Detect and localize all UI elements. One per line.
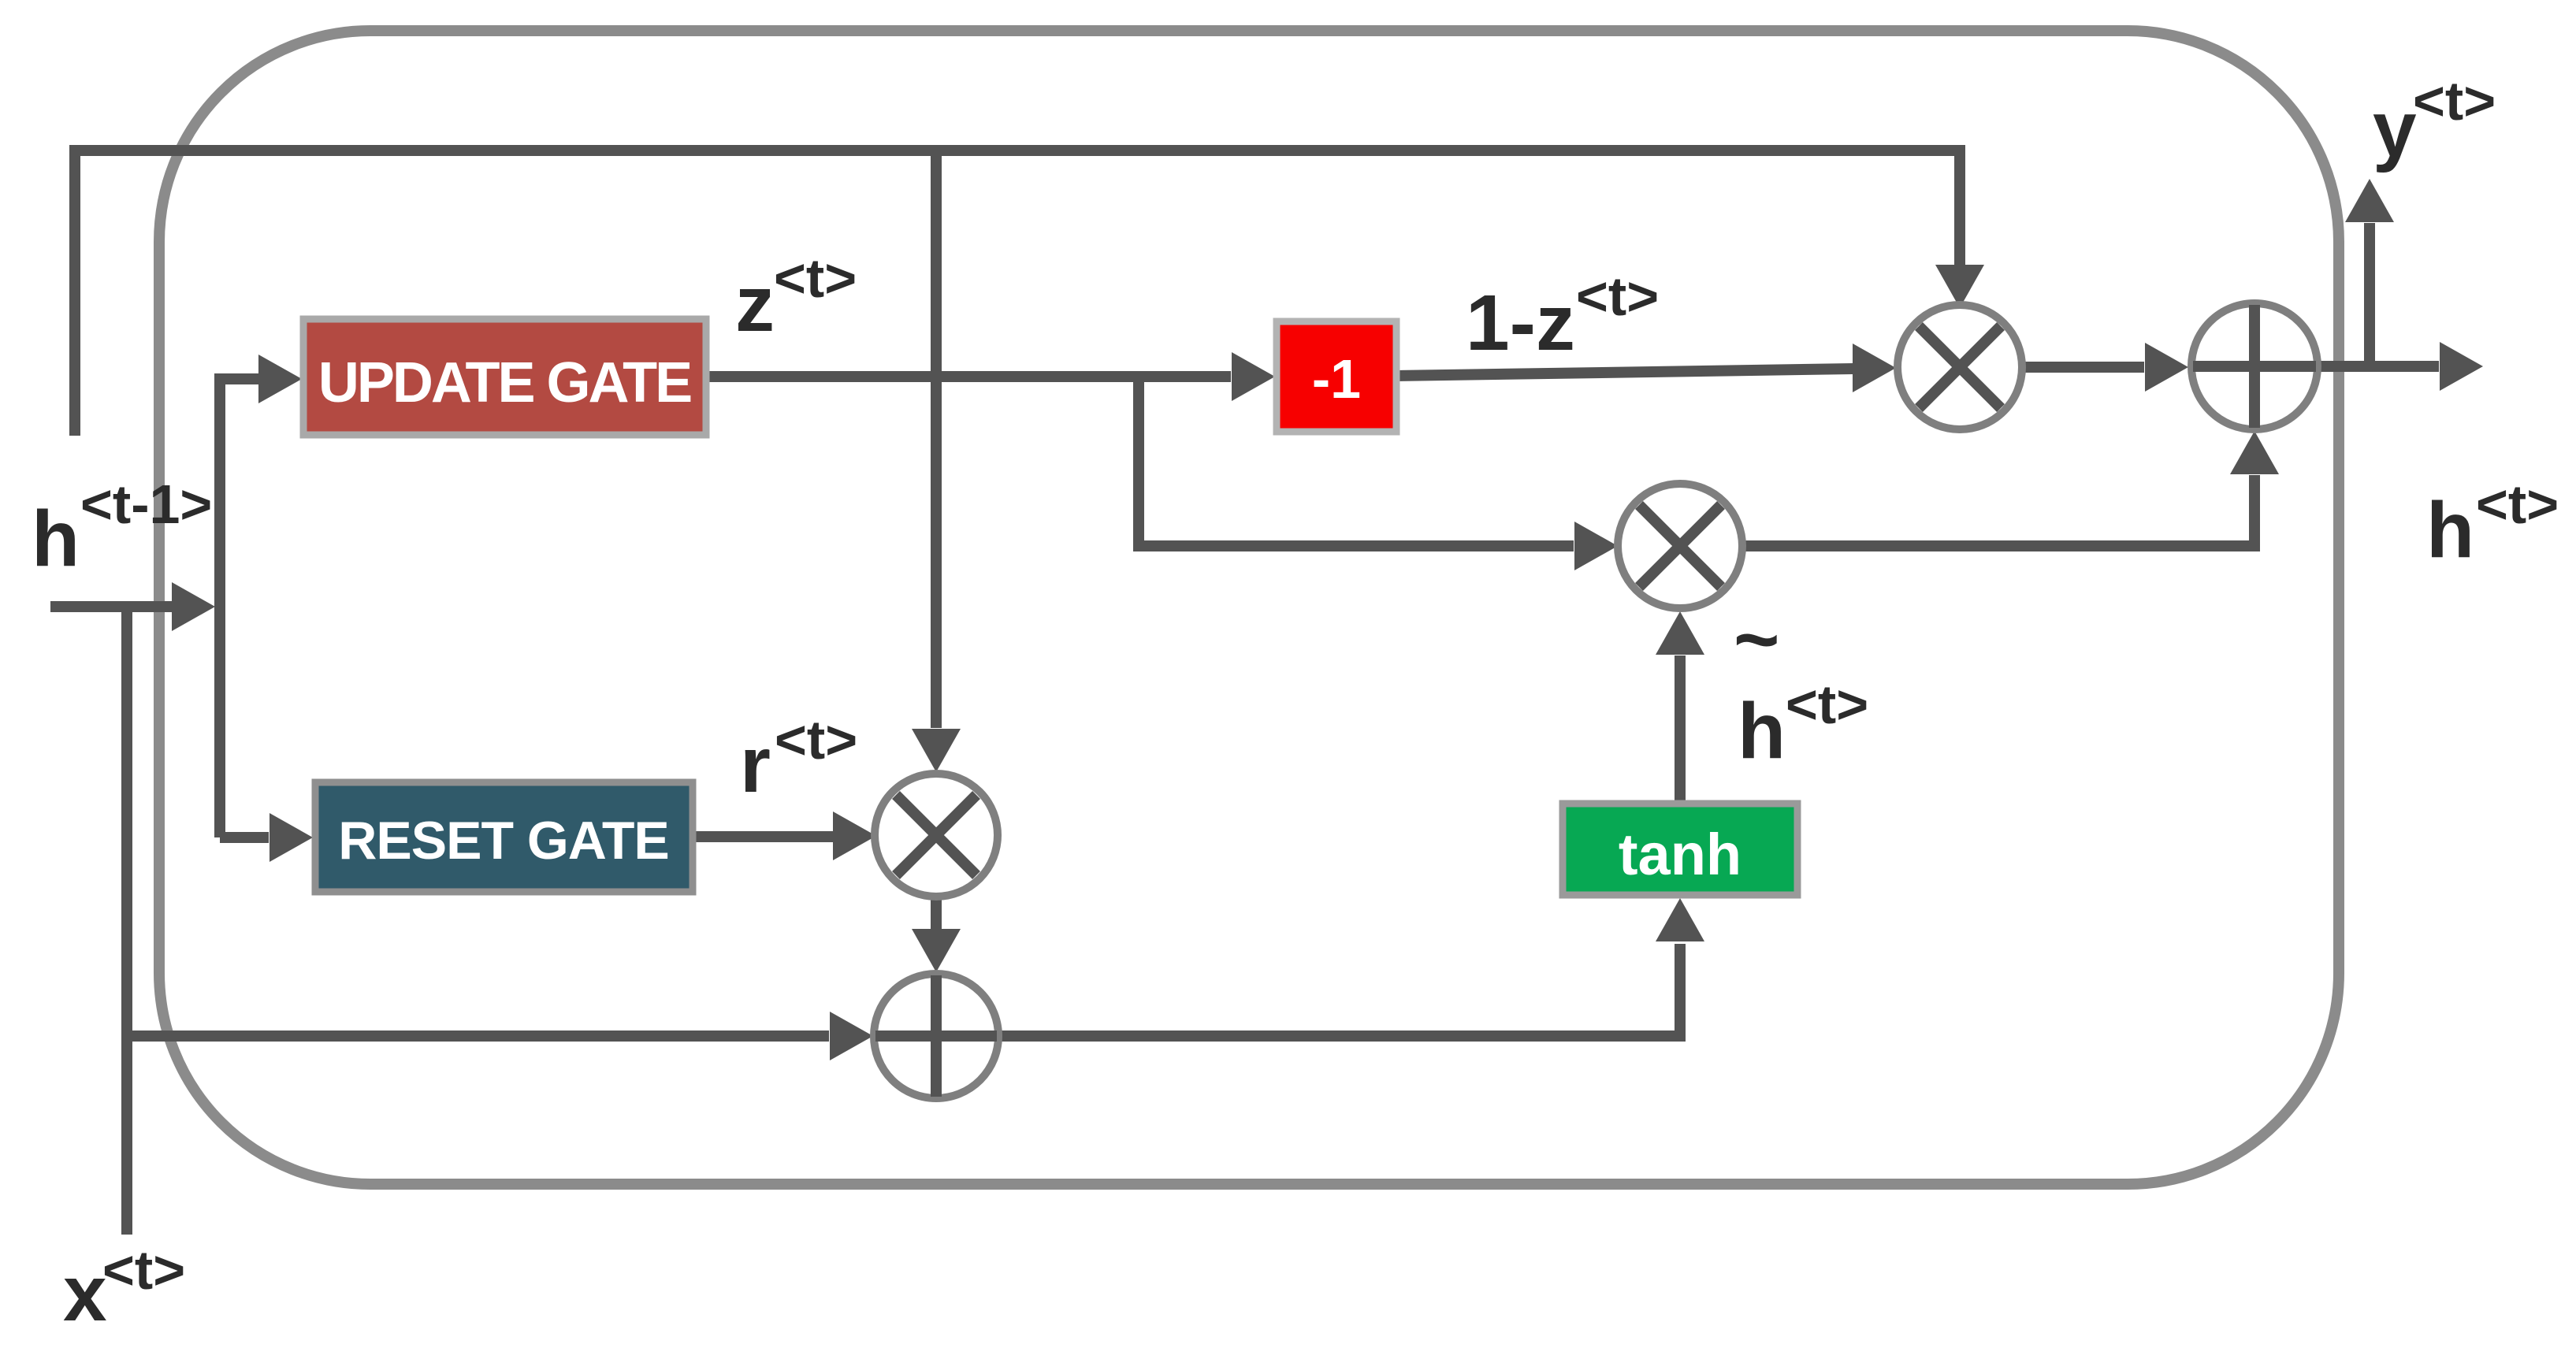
wire 1-z(t) from -1 box to top multiply [1396, 369, 1853, 376]
wire reset multiply down to plus node [931, 897, 942, 930]
svg-text:r: r [740, 721, 771, 809]
arrow into reset multiply from left [833, 811, 876, 860]
arrow into top multiply from left [1853, 343, 1896, 392]
tanh box [1563, 804, 1797, 895]
arrow into right plus from left [2145, 343, 2188, 392]
wire x(t) vertical input [121, 607, 132, 1235]
wire from bottom plus to tanh [998, 944, 1680, 1036]
wire top multiply to right plus [2022, 362, 2144, 373]
arrow y(t) output up [2345, 179, 2394, 222]
svg-text:h: h [2426, 486, 2474, 574]
top multiply node [1898, 305, 2022, 429]
arrow h feed into splitter [172, 582, 215, 631]
arrow into top multiply node [1935, 265, 1984, 308]
wire h(t-1) top loop to multiply node [75, 150, 1960, 436]
arrow into right plus from bottom [2230, 431, 2279, 474]
svg-text:h: h [1738, 687, 1786, 775]
svg-text:<t>: <t> [774, 247, 857, 309]
wire y(t) branch up [2364, 223, 2375, 366]
arrow into bottom plus from left [830, 1012, 873, 1060]
svg-text:RESET GATE: RESET GATE [338, 811, 668, 871]
arrow into update gate [258, 355, 302, 403]
arrow into middle multiply from bottom [1656, 611, 1704, 655]
wire z branch down to middle multiply [1139, 377, 1574, 546]
minus-one box [1277, 321, 1396, 432]
arrow into reset gate [269, 813, 313, 862]
svg-text:~: ~ [1734, 596, 1779, 684]
reset gate box [315, 782, 693, 892]
wire gate splitter vertical [220, 379, 269, 837]
wire h(t) output [2318, 361, 2439, 372]
label h(t-1) [32, 473, 212, 583]
wire h(t-1) vertical drop to reset multiply [931, 150, 942, 728]
arrow into bottom plus from top [912, 929, 961, 972]
reset multiply node [875, 774, 998, 897]
svg-text:y: y [2373, 85, 2417, 173]
middle multiply node [1618, 484, 1742, 608]
svg-text:<t>: <t> [1786, 674, 1868, 735]
GRU cell boundary [159, 31, 2339, 1184]
bottom plus node [874, 974, 998, 1098]
wire h(t-1) feed to gates [50, 601, 172, 612]
arrow into -1 box [1232, 352, 1275, 401]
wire r(t) from reset gate [693, 831, 833, 842]
svg-text:UPDATE GATE: UPDATE GATE [318, 351, 691, 414]
wire x(t) bottom feed to plus node [127, 1030, 829, 1042]
svg-text:<t>: <t> [2413, 70, 2496, 132]
update gate box [303, 319, 706, 435]
svg-text:h: h [32, 495, 80, 583]
svg-text:<t-1>: <t-1> [80, 473, 212, 535]
svg-text:<t>: <t> [2476, 473, 2559, 535]
label x(t) [63, 1239, 185, 1338]
svg-text:1-z: 1-z [1466, 279, 1575, 367]
wire z(t) from update gate [706, 371, 1231, 382]
svg-text:z: z [735, 260, 775, 348]
label h-tilde(t) [1734, 596, 1868, 775]
arrow into reset multiply from top [912, 729, 961, 772]
label 1-z(t) [1466, 266, 1659, 367]
svg-text:tanh: tanh [1619, 822, 1741, 887]
label r(t) [740, 709, 857, 809]
svg-text:<t>: <t> [775, 709, 857, 771]
label y(t) [2373, 70, 2496, 173]
svg-text:<t>: <t> [1576, 266, 1659, 327]
svg-text:-1: -1 [1312, 348, 1361, 410]
arrow into tanh bottom [1656, 898, 1704, 941]
svg-text:<t>: <t> [102, 1239, 185, 1301]
right plus node [2191, 303, 2318, 429]
arrow h(t) output [2440, 342, 2483, 391]
wire middle multiply to plus node right [1742, 475, 2254, 546]
svg-text:x: x [63, 1250, 107, 1338]
arrow into middle multiply from left [1574, 522, 1618, 570]
label z(t) [735, 247, 857, 348]
wire tanh output up to middle multiply [1675, 655, 1686, 804]
label h(t) [2426, 473, 2559, 574]
